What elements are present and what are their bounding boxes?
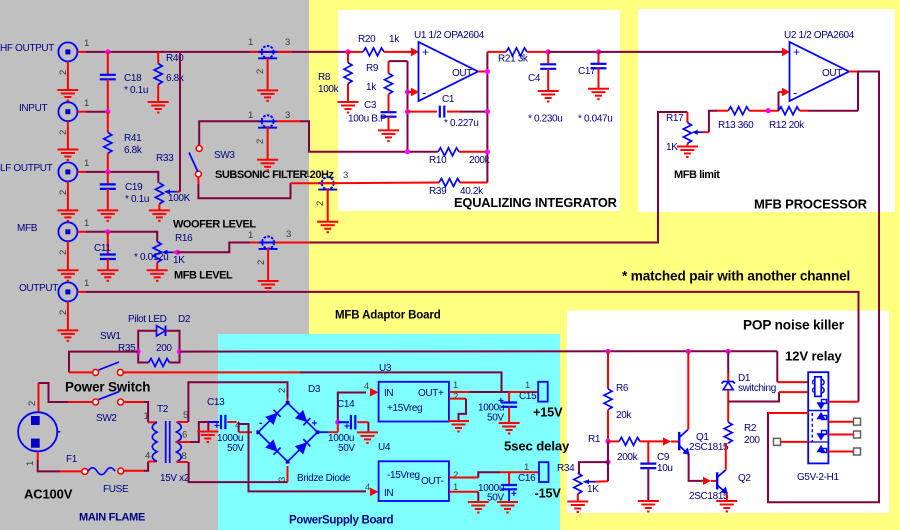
- svg-text:2: 2: [315, 201, 326, 206]
- svg-text:C16: C16: [518, 473, 536, 484]
- svg-text:MFB limit: MFB limit: [674, 169, 720, 181]
- plug AC100V: [18, 412, 60, 451]
- node R35 right: [177, 349, 182, 354]
- node D1 rail: [726, 349, 731, 354]
- wire R16 wiper to connector: [177, 243, 250, 253]
- wire U4 gnd pin1: [449, 482, 478, 502]
- wire U4 out pin2: [449, 470, 539, 481]
- svg-text:POP noise killer: POP noise killer: [743, 318, 845, 333]
- node Q1 collector rail: [686, 349, 691, 354]
- wire relay contact2 to MFB out loop: [768, 412, 808, 414]
- svg-text:* 0.047u: * 0.047u: [578, 114, 612, 125]
- wire CN4 pin3 to MFB limit R17: [275, 112, 687, 243]
- svg-text:+15V: +15V: [533, 406, 563, 420]
- capacitor C9 10u: [640, 441, 672, 501]
- svg-text:+: +: [793, 45, 800, 59]
- wire HF to R33 wiper: [179, 52, 181, 192]
- background gray region: [0, 0, 309, 530]
- node minus input: [405, 89, 410, 94]
- capacitor C11: [94, 232, 168, 270]
- wire red through conn1: [250, 51, 292, 53]
- connector J HF OUTPUT: [0, 38, 89, 75]
- wire bridge plus to C14: [320, 393, 367, 433]
- svg-text:2: 2: [256, 260, 267, 265]
- svg-text:R20: R20: [358, 34, 376, 45]
- svg-text:Q2: Q2: [738, 473, 751, 484]
- svg-text:R39: R39: [429, 186, 447, 197]
- svg-text:T2: T2: [157, 404, 169, 415]
- capacitor C17: [578, 52, 612, 125]
- wire AC plug to SW2: [27, 383, 93, 412]
- transistor Q2 2SC1815: [689, 470, 751, 502]
- svg-text:R1: R1: [588, 434, 601, 445]
- ground under HF connector: [57, 90, 78, 101]
- svg-text:-: -: [259, 417, 263, 429]
- svg-text:OUT-: OUT-: [421, 476, 444, 487]
- potentiometer R17 1K: [666, 112, 709, 153]
- ground under R40: [148, 102, 169, 113]
- svg-text:FUSE: FUSE: [103, 484, 129, 495]
- node MFB junction: [105, 229, 110, 234]
- svg-text:200k: 200k: [617, 452, 639, 463]
- wire U2 - input vertical: [779, 88, 791, 111]
- svg-text:D2: D2: [178, 314, 191, 325]
- svg-text:2: 2: [453, 392, 458, 403]
- capacitor C13 1000u 50V: [207, 397, 244, 454]
- node R35 left: [136, 349, 141, 354]
- svg-text:1: 1: [453, 380, 458, 391]
- capacitor C14 1000u 50V: [328, 399, 368, 454]
- switch SW2: [93, 392, 124, 424]
- svg-text:* 0.227u: * 0.227u: [444, 118, 478, 129]
- capacitor C4: [528, 52, 562, 125]
- node LF junction: [105, 169, 110, 174]
- svg-text:50V: 50V: [338, 443, 355, 454]
- wire CN2 pin1 to SW3: [199, 121, 259, 145]
- svg-text:G5V-2-H1: G5V-2-H1: [797, 472, 839, 483]
- svg-text:12V relay: 12V relay: [785, 349, 842, 364]
- wire R17 wiper up: [709, 111, 717, 133]
- svg-text:MFB Adaptor Board: MFB Adaptor Board: [335, 310, 441, 322]
- wire U3 out: [449, 380, 538, 392]
- regulator U3 +15Vreg: [364, 363, 449, 422]
- wire C17 to U2 + input: [599, 51, 783, 53]
- svg-text:R34: R34: [557, 463, 575, 474]
- svg-text:2SC1815: 2SC1815: [689, 442, 729, 453]
- svg-text:3: 3: [285, 37, 290, 48]
- svg-text:R6: R6: [616, 383, 629, 394]
- capacitor C19: [100, 172, 149, 211]
- wire CN2 pin3 to R10 row: [276, 121, 438, 152]
- op-amp U2: [784, 30, 855, 101]
- svg-text:1: 1: [84, 278, 89, 289]
- svg-text:* 0.230u: * 0.230u: [528, 114, 562, 125]
- node HF junction: [105, 49, 110, 54]
- svg-text:6: 6: [182, 430, 187, 441]
- arrow into U1 + input: [405, 48, 419, 57]
- svg-text:200: 200: [156, 343, 172, 354]
- terminal -15V: [535, 462, 562, 500]
- svg-text:3: 3: [286, 229, 291, 240]
- wire U2 output: [768, 72, 879, 503]
- bridge D3: [256, 384, 350, 484]
- svg-text:U1 1/2 OPA2604: U1 1/2 OPA2604: [414, 30, 485, 41]
- svg-text:1k: 1k: [366, 82, 377, 93]
- background cyan PowerSupply board: [218, 334, 560, 530]
- svg-text:1: 1: [248, 230, 253, 241]
- node R34 tap: [605, 460, 610, 465]
- wire SW2 to T2 pin1: [124, 402, 157, 422]
- white box equalizing integrator: [338, 10, 620, 211]
- potentiometer R33 100K: [155, 153, 190, 210]
- node C4 top: [546, 49, 551, 54]
- svg-text:4: 4: [364, 381, 369, 392]
- svg-text:8: 8: [182, 451, 187, 462]
- node C1 right: [485, 109, 490, 114]
- svg-text:AC100V: AC100V: [24, 487, 73, 502]
- svg-text:switching: switching: [738, 383, 776, 394]
- svg-text:1: 1: [84, 98, 89, 109]
- svg-text:-15Vreg: -15Vreg: [387, 470, 420, 481]
- regulator U4 -15Vreg: [365, 442, 449, 501]
- svg-text:OUT: OUT: [452, 68, 472, 79]
- svg-text:50V: 50V: [487, 413, 504, 424]
- svg-text:C14: C14: [337, 399, 355, 410]
- transformer T2: [144, 404, 190, 484]
- svg-text:MFB LEVEL: MFB LEVEL: [174, 270, 233, 282]
- wire U3 gnd pin2: [449, 392, 466, 422]
- fuse F1: [66, 454, 129, 495]
- resistor R21 3k: [487, 48, 548, 65]
- svg-text:* 0.012u: * 0.012u: [134, 252, 168, 263]
- node rail R6: [605, 349, 610, 354]
- resistor R20 1k: [348, 34, 411, 56]
- transistor Q1 2SC1815: [671, 430, 729, 456]
- wire U1 output vertical: [478, 52, 487, 183]
- svg-text:R33: R33: [156, 153, 174, 164]
- resistor R40 6.8k: [154, 52, 185, 102]
- node R13/R12: [766, 108, 771, 113]
- svg-text:1: 1: [84, 218, 89, 229]
- wire HF row stub: [68, 52, 86, 90]
- svg-text:C13: C13: [207, 397, 225, 408]
- svg-text:1K: 1K: [173, 255, 185, 266]
- relay pad left: [774, 438, 809, 445]
- svg-text:1K: 1K: [587, 484, 599, 495]
- svg-text:PowerSupply Board: PowerSupply Board: [289, 515, 393, 527]
- relay pads right: [828, 418, 860, 425]
- svg-text:3: 3: [277, 477, 288, 482]
- capacitor C1: [408, 94, 488, 129]
- node R10 right: [485, 149, 490, 154]
- switch SW1: [69, 331, 123, 375]
- svg-text:R41: R41: [124, 133, 142, 144]
- svg-text:R9: R9: [366, 63, 379, 74]
- svg-text:100u B.P: 100u B.P: [348, 114, 387, 125]
- resistor R6 20k: [604, 351, 632, 441]
- svg-text:IN: IN: [384, 388, 393, 399]
- svg-text:SW3: SW3: [214, 150, 235, 161]
- svg-text:+: +: [214, 421, 220, 432]
- capacitor C16 1000u 50V: [478, 462, 536, 504]
- svg-text:R40: R40: [166, 53, 184, 64]
- wire SW1 to +15V reg out: [123, 372, 501, 392]
- node R10 left: [405, 149, 410, 154]
- op-amp U1: [414, 30, 485, 101]
- svg-text:MAIN FLAME: MAIN FLAME: [79, 512, 145, 524]
- ground under CN1: [257, 90, 278, 101]
- svg-text:C11: C11: [94, 243, 111, 254]
- node C14: [335, 420, 340, 425]
- svg-text:2: 2: [255, 69, 266, 74]
- svg-text:C3: C3: [364, 100, 377, 111]
- svg-text:-: -: [793, 85, 797, 100]
- svg-text:U4: U4: [378, 442, 391, 453]
- connector CN3 subsonic: [305, 169, 348, 222]
- svg-text:1: 1: [84, 158, 89, 169]
- svg-text:R16: R16: [175, 233, 193, 244]
- resistor R10 200k: [429, 148, 491, 166]
- svg-text:WOOFER LEVEL: WOOFER LEVEL: [173, 219, 256, 231]
- svg-text:SUBSONIC FILTER 20Hz: SUBSONIC FILTER 20Hz: [215, 169, 334, 181]
- svg-text:1K: 1K: [666, 142, 678, 153]
- node R16 wiper: [175, 250, 180, 255]
- connector J LF OUTPUT: [0, 158, 89, 195]
- diode D1 switching: [722, 351, 776, 401]
- resistor R8 100k: [318, 49, 352, 102]
- ground at C14: [357, 432, 378, 443]
- svg-text:R10: R10: [429, 155, 447, 166]
- resistor R39 40.2k: [429, 179, 487, 198]
- wire U1 feedback vertical: [407, 61, 409, 152]
- svg-text:* 0.1u: * 0.1u: [124, 85, 148, 96]
- svg-text:1: 1: [144, 411, 149, 422]
- svg-text:50V: 50V: [227, 443, 244, 454]
- resistor R13 360: [718, 107, 779, 131]
- wire INPUT stub: [68, 112, 86, 150]
- svg-text:1: 1: [25, 461, 36, 466]
- arrow into Q1 base: [663, 437, 671, 445]
- svg-text:C17: C17: [578, 66, 596, 77]
- wire T2 pin5 to bridge top: [177, 382, 289, 422]
- svg-text:1: 1: [524, 462, 529, 473]
- wire INPUT row: [86, 111, 108, 113]
- svg-text:C4: C4: [528, 73, 541, 84]
- svg-text:+: +: [511, 489, 517, 500]
- wire C4 to C17: [548, 51, 598, 53]
- node INPUT junction: [105, 109, 110, 114]
- connector J MFB: [17, 218, 89, 255]
- wire T2 pin8 to bridge bottom: [177, 462, 289, 482]
- potentiometer R16 1K: [153, 233, 193, 270]
- resistor R12 20k: [769, 107, 858, 131]
- svg-text:1: 1: [305, 169, 310, 180]
- svg-text:R13 360: R13 360: [718, 120, 754, 131]
- wire LF row: [86, 172, 158, 183]
- node U1 out: [485, 69, 490, 74]
- svg-text:SW2: SW2: [96, 413, 117, 424]
- svg-text:+: +: [422, 45, 429, 59]
- svg-text:HF OUTPUT: HF OUTPUT: [0, 43, 54, 54]
- svg-text:OUT: OUT: [822, 68, 842, 79]
- ground at C13: [197, 432, 218, 443]
- svg-text:C19: C19: [125, 182, 143, 193]
- node C1 left: [405, 109, 410, 114]
- wire relay contact1 to output: [828, 401, 858, 403]
- svg-text:6.8k: 6.8k: [166, 73, 185, 84]
- svg-text:1: 1: [525, 380, 530, 391]
- svg-text:1k: 1k: [389, 34, 400, 45]
- wire T2 pin6 to C13/ground: [177, 422, 209, 442]
- wire CN3 pin3 to R39: [321, 182, 439, 185]
- potentiometer R34 1K: [557, 463, 599, 502]
- svg-text:4: 4: [365, 482, 370, 493]
- wire C13 to bridge minus and -15V input: [239, 422, 366, 491]
- capacitor C15 1000u 50V: [478, 380, 537, 424]
- wire rail to relay coil+: [777, 351, 809, 382]
- connector CN2 row2: [248, 110, 290, 160]
- svg-text:1: 1: [84, 38, 89, 49]
- wire Q2 collector to R2: [725, 443, 727, 470]
- wire Q2 emitter to ground: [726, 494, 728, 502]
- svg-text:* 0.1u: * 0.1u: [125, 194, 149, 205]
- wire D1 bottom to relay coil-: [728, 392, 779, 401]
- relay G5V-2-H1: [797, 372, 839, 483]
- node R6 bottom: [605, 439, 610, 444]
- svg-text:R8: R8: [318, 72, 331, 83]
- svg-text:1: 1: [248, 110, 253, 121]
- svg-text:2: 2: [453, 470, 458, 481]
- svg-text:+: +: [344, 422, 350, 433]
- svg-text:EQUALIZING INTEGRATOR: EQUALIZING INTEGRATOR: [454, 195, 617, 210]
- diode D2 pilot LED: [128, 314, 191, 352]
- svg-text:R12 20k: R12 20k: [769, 120, 805, 131]
- connector J OUTPUT: [19, 278, 89, 315]
- svg-text:MFB: MFB: [17, 223, 38, 234]
- svg-text:MFB PROCESSOR: MFB PROCESSOR: [754, 197, 868, 212]
- resistor R2 200: [724, 402, 760, 447]
- svg-text:5sec delay: 5sec delay: [504, 439, 570, 454]
- connector CN1 row1: [248, 37, 290, 90]
- svg-text:2: 2: [255, 139, 266, 144]
- svg-text:R17: R17: [666, 113, 684, 124]
- svg-text:4: 4: [145, 451, 150, 462]
- capacitor C18: [100, 52, 148, 111]
- svg-text:Bridze Diode: Bridze Diode: [297, 473, 351, 484]
- svg-text:F1: F1: [66, 454, 78, 465]
- svg-text:1: 1: [248, 37, 253, 48]
- wire SW3 to subsonic connector: [198, 177, 321, 198]
- wire +15V rail: [180, 350, 778, 352]
- svg-text:R21 3k: R21 3k: [498, 54, 529, 65]
- svg-text:-15V: -15V: [535, 487, 562, 501]
- wire R6 bottom to R34: [579, 441, 608, 481]
- svg-text:2: 2: [277, 388, 288, 393]
- white box MFB processor: [638, 9, 895, 212]
- svg-text:3: 3: [343, 170, 348, 181]
- arrow into U2 + input: [782, 48, 790, 57]
- svg-text:+: +: [312, 419, 318, 430]
- svg-text:20k: 20k: [616, 410, 632, 421]
- svg-text:U3: U3: [379, 363, 392, 374]
- wire fuse to T2 pin4: [124, 462, 157, 471]
- switch SW3: [189, 146, 235, 178]
- connector CN4 row4: [248, 229, 291, 281]
- resistor R9 1k: [366, 61, 408, 112]
- svg-text:OUT+: OUT+: [418, 388, 444, 399]
- svg-text:10u: 10u: [657, 463, 673, 474]
- svg-text:100k: 100k: [318, 84, 340, 95]
- node C17 top: [596, 49, 601, 54]
- wire Q1 emitter to Q2 base: [689, 455, 717, 486]
- svg-text:D3: D3: [308, 384, 321, 395]
- svg-text:3: 3: [285, 110, 290, 121]
- wire MFB row: [86, 232, 157, 242]
- svg-text:* matched pair with another ch: * matched pair with another channel: [622, 269, 850, 284]
- capacitor C3 100u B.P: [348, 100, 397, 130]
- wire OUTPUT long row to relay: [86, 292, 859, 402]
- svg-text:U2 1/2 OPA2604: U2 1/2 OPA2604: [784, 30, 855, 41]
- svg-text:C18: C18: [124, 73, 142, 84]
- arrow into U1 - input: [408, 88, 420, 97]
- terminal +15V: [533, 382, 563, 420]
- resistor R1 200k: [588, 434, 663, 463]
- resistor R35 200: [118, 343, 180, 367]
- svg-text:+15Vreg: +15Vreg: [387, 403, 422, 414]
- svg-text:C1: C1: [442, 94, 455, 105]
- wire plug to fuse: [25, 451, 82, 471]
- svg-text:INPUT: INPUT: [19, 103, 47, 114]
- svg-text:15V x2: 15V x2: [160, 473, 190, 484]
- svg-text:100K: 100K: [168, 193, 191, 204]
- svg-text:2: 2: [27, 401, 38, 406]
- resistor R41 6.8k: [104, 112, 143, 172]
- svg-text:C15: C15: [519, 391, 537, 402]
- svg-text:IN: IN: [384, 488, 393, 499]
- wire R35 to SW1: [69, 352, 138, 373]
- svg-text:SW1: SW1: [100, 331, 121, 342]
- connector J INPUT: [19, 98, 89, 135]
- svg-text:200: 200: [744, 435, 760, 446]
- svg-text:-: -: [422, 85, 426, 100]
- svg-text:LF OUTPUT: LF OUTPUT: [0, 163, 53, 174]
- svg-text:C9: C9: [657, 452, 670, 463]
- wire Q1 collector: [687, 351, 689, 429]
- svg-text:Pilot LED: Pilot LED: [128, 314, 167, 325]
- white box POP noise killer: [567, 311, 889, 514]
- svg-text:6.8k: 6.8k: [124, 145, 143, 156]
- svg-text:R2: R2: [744, 423, 757, 434]
- svg-text:Power Switch: Power Switch: [65, 380, 150, 395]
- svg-text:OUTPUT: OUTPUT: [19, 283, 58, 294]
- wire HF row: [86, 51, 348, 53]
